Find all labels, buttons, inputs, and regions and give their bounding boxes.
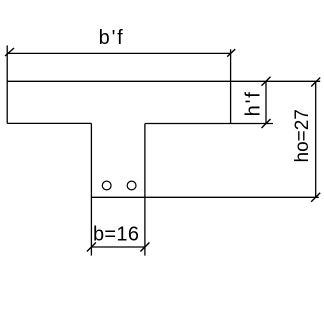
- svg-text:ho=27: ho=27: [292, 109, 313, 162]
- svg-text:b=16: b=16: [93, 223, 139, 245]
- svg-text:h'f: h'f: [243, 90, 265, 116]
- svg-text:b'f: b'f: [99, 27, 125, 49]
